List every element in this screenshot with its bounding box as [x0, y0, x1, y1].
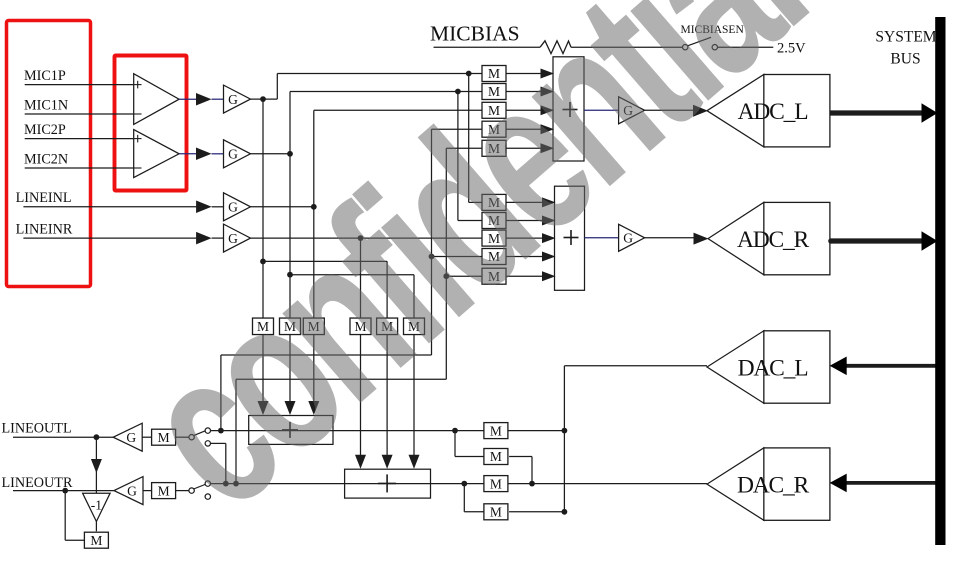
svg-text:MIC2N: MIC2N: [24, 151, 68, 167]
svg-text:SYSTEM: SYSTEM: [875, 29, 936, 46]
svg-text:M: M: [490, 423, 502, 438]
svg-text:G: G: [228, 147, 238, 162]
svg-text:LINEOUTL: LINEOUTL: [2, 421, 72, 437]
svg-text:DAC_L: DAC_L: [738, 356, 808, 382]
svg-text:M: M: [490, 476, 502, 491]
svg-text:MIC1N: MIC1N: [24, 97, 68, 113]
svg-text:LINEOUTR: LINEOUTR: [2, 475, 73, 491]
svg-text:MIC1P: MIC1P: [24, 68, 66, 84]
svg-text:-1: -1: [91, 498, 102, 513]
svg-text:M: M: [90, 533, 102, 548]
svg-text:G: G: [126, 430, 136, 445]
svg-text:LINEINL: LINEINL: [16, 190, 72, 206]
svg-text:M: M: [158, 483, 170, 498]
svg-text:G: G: [228, 92, 238, 107]
svg-text:G: G: [228, 200, 238, 215]
svg-text:BUS: BUS: [890, 51, 920, 68]
svg-text:ADC_R: ADC_R: [737, 227, 810, 253]
svg-text:M: M: [490, 505, 502, 520]
svg-text:LINEINR: LINEINR: [16, 222, 73, 238]
svg-text:M: M: [490, 449, 502, 464]
svg-text:MIC2P: MIC2P: [24, 122, 66, 138]
svg-text:DAC_R: DAC_R: [737, 473, 810, 499]
svg-text:G: G: [127, 483, 137, 498]
